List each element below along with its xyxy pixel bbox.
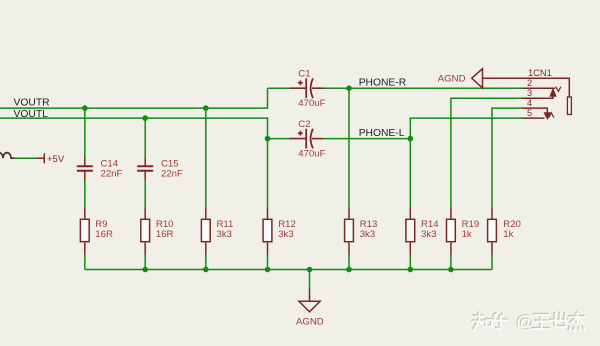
svg-text:C2: C2 [298,119,310,130]
wire R12 column [267,139,269,270]
connector CN1 pin 1 [483,78,572,114]
junction node C2-left/R12 [265,136,271,142]
wire +5V net [15,157,36,159]
svg-text:3k3: 3k3 [360,229,375,240]
connector CN1 pin 3 contact [521,90,556,99]
svg-text:AGND: AGND [296,316,324,327]
svg-text:+5V: +5V [47,154,65,165]
svg-text:22nF: 22nF [101,168,123,179]
svg-text:16R: 16R [156,229,174,240]
junction node rail/R10 [142,267,148,273]
label C2 value [298,119,325,160]
resistor R13 [345,208,354,255]
label C1 value [298,69,325,110]
label R12 value [278,219,296,240]
capacitor C15 [137,157,153,180]
ground AGND top symbol [472,69,483,88]
ground AGND bottom symbol [299,289,320,312]
svg-text:16R: 16R [95,229,113,240]
svg-text:1k: 1k [503,229,513,240]
label R19 value [462,219,480,240]
svg-text:PHONE-L: PHONE-L [359,128,405,139]
resistor R9 [80,208,89,255]
junction node VOUTR/R9 [82,105,88,111]
junction node rail/R11 [203,267,209,273]
junction node PHONE-L/R14 [408,136,414,142]
wire R14 column / pin5 riser [410,118,523,269]
wire C15 column [144,118,146,269]
label R9 value [95,219,113,240]
wire R13 column [348,88,350,269]
junction node VOUTL/R10 [142,115,148,121]
capacitor C14 [77,157,93,180]
connector CN1 pin 2 contact [523,87,561,92]
label C15 value [161,159,183,180]
svg-text:AGND: AGND [438,73,466,84]
svg-text:PHONE-R: PHONE-R [359,78,406,89]
wire bottom ground rail [85,269,492,271]
svg-text:1k: 1k [462,229,472,240]
resistor R19 [447,208,456,255]
label R11 value [217,219,234,240]
label R13 value [360,219,378,240]
connector CN1 pin 4 contact [522,108,550,118]
resistor R11 [201,208,210,255]
junction node rail/AGND [307,267,313,273]
svg-text:470uF: 470uF [298,98,325,109]
svg-text:5: 5 [527,108,532,118]
wire C14 column [84,108,86,269]
capacitor C1 [290,78,323,98]
label R20 value [503,219,521,240]
svg-text:VOUTL: VOUTL [14,109,49,120]
junction node VOUTR/R11 [203,105,209,111]
junction node rail/R14 [408,267,414,273]
svg-text:470uF: 470uF [298,149,325,160]
resistor R20 [488,208,497,255]
junction node PHONE-R/R13 [346,85,352,91]
resistor R14 [406,208,415,255]
wire VOUTR horizontal [0,88,268,108]
label R14 value [421,219,439,240]
supply +5V symbol [35,153,44,163]
svg-text:1CN1: 1CN1 [528,68,552,78]
svg-text:VOUTR: VOUTR [14,98,50,109]
wire R11 column [205,108,207,269]
junction node rail/R19 [448,267,454,273]
svg-text:3k3: 3k3 [421,229,436,240]
label R10 value [156,219,174,240]
wire R19 column / pin3 [451,98,521,269]
wire AGND drop [309,270,311,290]
resistor R12 [263,208,272,255]
wire C2 row / PHONE-L net [268,138,411,140]
off-page squiggle left [0,153,15,159]
wire C1 row / PHONE-R net [268,87,524,89]
wire VOUTL horizontal [0,118,268,139]
svg-text:2: 2 [527,78,532,88]
wire R20 column / pin4 [492,108,522,269]
svg-text:22nF: 22nF [161,168,183,179]
connector CN1 pin 5 contact [523,113,554,118]
label C14 value [101,159,123,180]
resistor R10 [141,208,150,255]
junction node rail/R13 [346,267,352,273]
svg-text:3k3: 3k3 [278,229,293,240]
svg-text:3: 3 [527,88,532,98]
svg-text:C1: C1 [298,69,310,80]
svg-text:4: 4 [527,98,532,108]
svg-text:3k3: 3k3 [217,229,232,240]
junction node rail/R12 [265,267,271,273]
capacitor C2 [290,129,323,149]
